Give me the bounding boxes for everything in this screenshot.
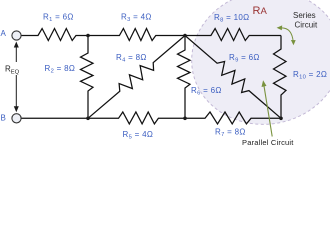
svg-text:A: A [1, 29, 7, 38]
node junction bottom-center (R5/R6/R7) [183, 117, 187, 121]
svg-text:R9 = 6Ω: R9 = 6Ω [229, 53, 260, 64]
svg-text:B: B [1, 113, 7, 122]
svg-text:R2 = 8Ω: R2 = 8Ω [45, 64, 76, 75]
svg-text:R7 = 8Ω: R7 = 8Ω [215, 128, 246, 139]
node junction bottom-right (R7/R9/R10) [279, 117, 283, 121]
svg-text:R4 = 8Ω: R4 = 8Ω [116, 53, 147, 64]
svg-text:R10 = 2Ω: R10 = 2Ω [293, 70, 327, 81]
Series circuit green curved arrow [281, 28, 294, 42]
series arrowhead left [277, 25, 283, 30]
resistor R6 [178, 36, 191, 119]
svg-text:REQ: REQ [5, 65, 20, 76]
resistor R9 [185, 36, 281, 119]
resistor R10 [274, 36, 287, 119]
svg-text:Parallel Circuit: Parallel Circuit [242, 138, 294, 147]
resistor R3 [88, 29, 185, 41]
resistor R4 [88, 36, 185, 119]
resistor R2 [81, 36, 94, 119]
node junction bottom-left (R2/R4/R5) [86, 117, 90, 121]
Parallel circuit olive pointer arrow [264, 86, 272, 137]
series arrowhead down [291, 40, 296, 45]
REQ measurement double arrow between terminals [15, 45, 17, 111]
svg-text:R3 = 4Ω: R3 = 4Ω [121, 13, 152, 24]
REQ arrowhead down [14, 106, 19, 112]
svg-text:R5 = 4Ω: R5 = 4Ω [123, 130, 154, 141]
svg-text:R6 = 6Ω: R6 = 6Ω [191, 86, 222, 97]
node junction top-center (R3/R4/R6/R8/R9) [183, 34, 187, 38]
resistor R7 [185, 112, 281, 124]
terminal A [12, 31, 21, 40]
resistor R8 [185, 29, 281, 41]
svg-text:R8 = 10Ω: R8 = 10Ω [214, 13, 249, 24]
svg-text:RA: RA [253, 5, 268, 17]
REQ arrowhead up [14, 42, 19, 48]
resistor R5 [88, 112, 185, 124]
svg-text:Circuit: Circuit [295, 21, 318, 30]
resistor R1 [21, 29, 88, 41]
svg-text:R1 = 6Ω: R1 = 6Ω [43, 13, 74, 24]
RA region dashed ellipse [180, 0, 330, 137]
terminal B [12, 114, 21, 123]
svg-text:Series: Series [293, 11, 316, 20]
parallel arrowhead up [262, 80, 267, 87]
node junction top-left (R1/R2/R3) [86, 34, 90, 38]
wire bottom B to node [21, 117, 88, 119]
